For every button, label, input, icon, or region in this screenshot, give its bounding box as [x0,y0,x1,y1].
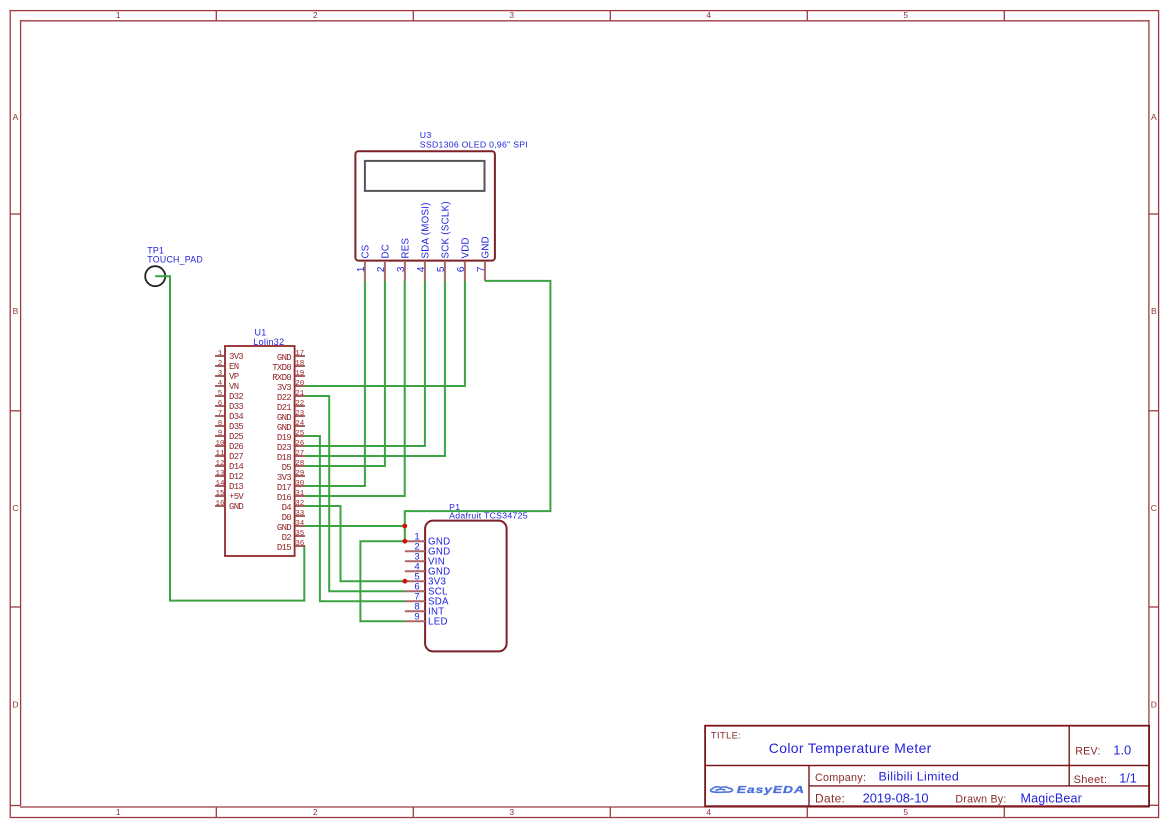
svg-text:11: 11 [215,450,225,458]
U1 pin 26 D23 [277,440,305,453]
svg-text:D: D [12,700,18,710]
svg-text:1: 1 [356,266,367,272]
component P1 Adafruit TCS34725 [425,502,528,651]
svg-text:13: 13 [215,470,225,478]
wire U1 pin30 D17 to U3 pin1 CS [305,281,365,486]
svg-text:16: 16 [215,500,225,508]
U1 pin 18 TXD0 [272,360,305,373]
U1 pin 6 D33 [215,400,243,412]
svg-text:1: 1 [218,350,223,358]
svg-text:1: 1 [116,807,121,817]
wire U1 pin21 D22 to P1 pin6 SCL [305,396,405,591]
svg-text:U1: U1 [255,327,267,337]
pin 2 DC [376,244,391,281]
U1 pin 31 D16 [277,490,305,503]
svg-text:5: 5 [903,807,908,817]
svg-text:D21: D21 [277,403,291,413]
svg-text:23: 23 [295,410,305,418]
svg-text:14: 14 [215,480,225,488]
svg-text:3: 3 [509,10,514,20]
U1 pin 2 EN [215,360,239,372]
U1 pin 9 D25 [215,430,243,442]
svg-text:D35: D35 [229,422,243,432]
U1 pin 29 3V3 [277,470,305,483]
U1 pin 5 D32 [215,390,243,402]
P1 pin 3 VIN [405,552,445,568]
svg-text:D: D [1151,700,1157,710]
U1 pin 30 D17 [277,480,305,493]
svg-text:25: 25 [295,430,305,438]
svg-text:28: 28 [295,460,304,468]
U1 pin 13 D12 [215,470,243,482]
svg-text:D2: D2 [282,533,292,543]
svg-text:GND: GND [229,502,243,512]
svg-text:SDA (MOSI): SDA (MOSI) [420,202,431,258]
pin 1 CS [356,244,371,281]
svg-text:GND: GND [277,353,291,363]
U1 pin 4 VN [215,380,239,392]
pin 4 SDA (MOSI) [416,202,431,281]
svg-text:27: 27 [295,450,304,458]
svg-text:7: 7 [476,266,487,272]
svg-text:SCK (SCLK): SCK (SCLK) [440,201,451,258]
svg-text:4: 4 [218,380,223,388]
svg-text:D4: D4 [282,503,292,513]
wire U1 pin28 D5 to U3 pin2 DC [305,281,385,466]
svg-text:D16: D16 [277,493,291,503]
svg-text:TXD0: TXD0 [272,363,291,373]
svg-text:29: 29 [295,470,304,478]
svg-text:2019-08-10: 2019-08-10 [863,790,929,805]
U1 pin 14 D13 [215,480,243,492]
svg-text:TITLE:: TITLE: [711,731,742,742]
svg-text:D34: D34 [229,412,243,422]
svg-text:26: 26 [295,440,305,448]
U1 pin 17 GND [277,350,305,363]
U1 pin 3 VP [215,370,239,382]
P1 pin 9 LED [405,612,448,628]
svg-text:2: 2 [376,266,387,272]
svg-text:17: 17 [295,350,304,358]
svg-text:VP: VP [229,372,239,382]
U1 pin 16 GND [215,500,243,512]
svg-text:30: 30 [295,480,305,488]
svg-text:18: 18 [295,360,304,368]
svg-text:8: 8 [218,420,223,428]
pin 6 VDD [456,237,471,281]
junction P1 pin1 [403,539,408,544]
svg-text:5: 5 [903,10,908,20]
svg-text:D17: D17 [277,483,291,493]
svg-text:GND: GND [480,236,491,258]
svg-text:3V3: 3V3 [277,383,291,393]
svg-text:D27: D27 [229,452,243,462]
svg-text:D18: D18 [277,453,291,463]
U1 pin 35 D2 [282,530,305,543]
svg-text:RES: RES [400,237,411,258]
svg-text:4: 4 [416,266,427,272]
svg-text:7: 7 [218,410,223,418]
EasyEDA logo [711,784,805,796]
svg-text:20: 20 [295,380,305,388]
wire P1 pin1 GND to P1 pin9 LED [360,541,405,621]
touch pad TP1 [145,246,203,287]
svg-text:A: A [13,112,19,122]
svg-text:Date:: Date: [815,791,845,805]
svg-text:DC: DC [380,244,391,259]
svg-text:C: C [12,503,18,513]
P1 pin 1 GND [405,532,451,548]
P1 pin 7 SDA [405,592,449,608]
wire U1 pin25 D19 to P1 pin7 SDA [305,436,405,601]
svg-text:VDD: VDD [460,237,471,258]
svg-text:VN: VN [229,382,239,392]
svg-text:SSD1306 OLED 0,96" SPI: SSD1306 OLED 0,96" SPI [420,139,528,149]
U1 pin 11 D27 [215,450,243,462]
svg-text:3V3: 3V3 [229,352,243,362]
svg-text:6: 6 [456,266,467,272]
svg-text:D12: D12 [229,472,243,482]
svg-text:32: 32 [295,500,304,508]
wire U1 pin32 D4 to P1 pin5 3V3 [305,506,405,581]
svg-text:EN: EN [229,362,239,372]
svg-text:35: 35 [295,530,305,538]
U1 pin 32 D4 [282,500,305,513]
svg-text:LED: LED [428,616,448,627]
svg-text:EasyEDA: EasyEDA [737,784,805,796]
svg-text:9: 9 [218,430,223,438]
U1 pin 12 D14 [215,460,243,472]
P1 pin 8 INT [405,602,445,618]
svg-text:D25: D25 [229,432,243,442]
svg-text:1/1: 1/1 [1119,772,1137,786]
component U1 Lolin32 [225,327,295,556]
svg-text:36: 36 [295,540,305,548]
svg-text:Company:: Company: [815,772,866,784]
svg-text:C: C [1151,503,1157,513]
U1 pin 8 D35 [215,420,243,432]
svg-text:12: 12 [215,460,224,468]
svg-text:4: 4 [706,10,711,20]
svg-text:10: 10 [215,440,225,448]
pin 5 SCK (SCLK) [436,201,451,281]
svg-text:TOUCH_PAD: TOUCH_PAD [147,255,203,265]
svg-text:D19: D19 [277,433,291,443]
wire U1 pin34 GND to GND net [305,525,405,527]
svg-text:1.0: 1.0 [1113,742,1131,757]
wire U1 pin20 3V3 to U3 pin6 VDD [305,281,465,386]
svg-text:Adafruit TCS34725: Adafruit TCS34725 [449,511,528,521]
pin 7 GND [476,236,491,281]
svg-text:GND: GND [277,423,291,433]
U1 pin 15 +5V [215,490,244,502]
svg-text:3: 3 [218,370,223,378]
wire TP1 to U1 pin 36 D15 [155,276,305,600]
svg-text:D26: D26 [229,442,243,452]
U1 pin 10 D26 [215,440,243,452]
U1 pin 22 D21 [277,400,305,413]
title block [705,726,1149,807]
wire U1 pin27 D18 to U3 pin5 SCK [305,281,445,456]
svg-text:REV:: REV: [1075,746,1101,758]
U1 pin 28 D5 [282,460,305,473]
U1 pin 20 3V3 [277,380,305,393]
wire U3 pin7 GND to P1 pin1 GND [405,281,551,541]
svg-text:D32: D32 [229,392,243,402]
svg-text:21: 21 [295,390,305,398]
svg-text:3: 3 [509,807,514,817]
component U3 SSD1306 OLED 0,96" SPI [355,130,528,281]
svg-text:6: 6 [218,400,223,408]
svg-text:Color Temperature Meter: Color Temperature Meter [769,740,932,756]
svg-text:D22: D22 [277,393,291,403]
junction P1 pin5 [403,579,408,584]
svg-text:GND: GND [277,413,291,423]
U1 pin 33 D0 [282,510,305,523]
svg-text:9: 9 [414,612,419,623]
svg-text:A: A [1151,112,1157,122]
svg-text:15: 15 [215,490,225,498]
U1 pin 19 RXD0 [272,370,305,383]
svg-text:MagicBear: MagicBear [1021,791,1083,805]
junction GND net at U1 pin34 [402,524,407,529]
svg-text:Bilibili Limited: Bilibili Limited [879,769,960,783]
svg-text:Sheet:: Sheet: [1074,774,1108,786]
svg-text:B: B [1151,306,1157,316]
P1 pin 4 GND [405,562,451,578]
U1 pin 34 GND [277,520,305,533]
svg-text:CS: CS [360,244,371,258]
U1 pin 25 D19 [277,430,305,443]
svg-text:D15: D15 [277,543,291,553]
U1 pin 36 D15 [277,540,305,553]
svg-text:3V3: 3V3 [277,473,291,483]
svg-text:2: 2 [218,360,223,368]
svg-text:D14: D14 [229,462,243,472]
svg-text:D33: D33 [229,402,243,412]
wire U1 pin31 D16 to U3 pin3 RES [305,281,405,496]
svg-text:34: 34 [295,520,305,528]
svg-text:5: 5 [218,390,223,398]
P1 pin 5 3V3 [405,572,446,588]
svg-text:D5: D5 [282,463,292,473]
svg-text:D23: D23 [277,443,291,453]
svg-text:4: 4 [706,807,711,817]
svg-text:RXD0: RXD0 [272,373,291,383]
P1 pin 6 SCL [405,582,448,598]
pin 3 RES [396,237,411,280]
svg-text:5: 5 [436,266,447,272]
U1 pin 27 D18 [277,450,305,463]
svg-text:GND: GND [277,523,291,533]
U1 pin 1 3V3 [215,350,243,362]
U1 pin 7 D34 [215,410,243,422]
svg-text:+5V: +5V [229,492,244,502]
U1 pin 24 GND [277,420,305,433]
U1 pin 23 GND [277,410,305,423]
svg-text:19: 19 [295,370,304,378]
svg-text:22: 22 [295,400,304,408]
svg-text:33: 33 [295,510,305,518]
U1 pin 21 D22 [277,390,305,403]
svg-text:2: 2 [313,807,318,817]
svg-text:2: 2 [313,10,318,20]
svg-text:3: 3 [396,266,407,272]
wire U1 pin26 D23 to U3 pin4 SDA [305,281,425,446]
svg-text:D13: D13 [229,482,243,492]
svg-text:31: 31 [295,490,305,498]
svg-text:Drawn By:: Drawn By: [955,793,1006,805]
svg-text:B: B [13,306,19,316]
P1 pin 2 GND [405,542,451,558]
svg-text:24: 24 [295,420,305,428]
svg-text:1: 1 [116,10,121,20]
svg-text:D0: D0 [282,513,292,523]
